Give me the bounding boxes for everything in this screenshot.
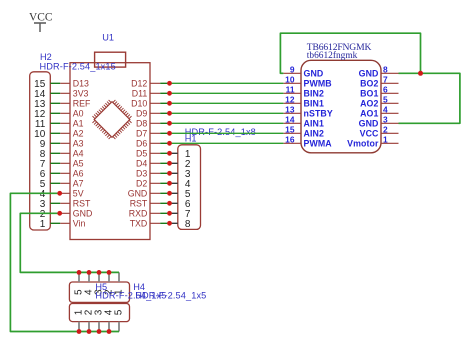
TB6612 left pin numbers (285, 64, 295, 144)
U1 left pin names (73, 79, 93, 229)
svg-text:3V3: 3V3 (73, 89, 89, 99)
header H2 body HDR-F-2.54_1x15 (30, 72, 51, 230)
svg-text:GND: GND (73, 209, 93, 219)
svg-text:GND: GND (128, 189, 148, 199)
svg-text:Vin: Vin (73, 219, 86, 229)
svg-text:9: 9 (290, 64, 295, 74)
U1 right pin leads (150, 83, 160, 223)
svg-text:VCC: VCC (29, 11, 52, 23)
svg-text:1: 1 (40, 219, 46, 230)
svg-text:VCC: VCC (360, 129, 379, 139)
wire GND net H2 pin2 to H5 top row (20, 213, 119, 272)
H1 reference label (185, 134, 197, 144)
svg-text:GND: GND (304, 69, 324, 79)
motor driver U TB6612FNGMK body (301, 60, 381, 153)
svg-text:D9: D9 (136, 109, 147, 119)
svg-text:5: 5 (383, 94, 388, 104)
H4 reference label (133, 282, 145, 292)
svg-text:PWMA: PWMA (304, 139, 333, 149)
svg-text:1: 1 (383, 134, 388, 144)
svg-text:5: 5 (114, 309, 125, 315)
H4 value label (135, 291, 206, 301)
svg-text:D10: D10 (131, 99, 147, 109)
TB6612 left pin leads 9..16 (283, 73, 301, 143)
svg-text:TXD: TXD (130, 219, 148, 229)
svg-text:16: 16 (285, 134, 295, 144)
svg-text:12: 12 (285, 94, 295, 104)
svg-text:D6: D6 (136, 139, 147, 149)
svg-text:8: 8 (383, 64, 388, 74)
U1 left pin leads (60, 83, 70, 223)
svg-text:A4: A4 (73, 149, 84, 159)
svg-text:14: 14 (285, 114, 295, 124)
U1 QFP chip glyph (89, 97, 135, 143)
svg-text:nSTBY: nSTBY (304, 109, 333, 119)
wire VCC loop TB pin9 to pin8 (280, 33, 420, 73)
svg-text:Vmotor: Vmotor (347, 139, 379, 149)
svg-text:A1: A1 (73, 119, 84, 129)
H1 pin numbers 1..8 (185, 149, 191, 230)
junction dot H2 pin4 5V (57, 191, 62, 196)
junction dot H2 pin2 GND (57, 211, 62, 216)
svg-text:D7: D7 (136, 129, 147, 139)
IC U1 body (Arduino Nano) (70, 63, 150, 240)
svg-text:BIN2: BIN2 (304, 89, 324, 99)
H2 value label (40, 62, 116, 72)
TB6612 right pin names (347, 69, 379, 149)
svg-text:A5: A5 (73, 159, 84, 169)
svg-text:10: 10 (285, 74, 295, 84)
svg-text:REF: REF (73, 99, 91, 109)
svg-text:D2: D2 (136, 179, 147, 189)
svg-text:RST: RST (73, 199, 91, 209)
header H4 body HDR-F-2.54_1x5 (bottom horizontal) (69, 304, 129, 322)
svg-text:H2: H2 (40, 52, 52, 62)
svg-text:D4: D4 (136, 159, 147, 169)
svg-text:7: 7 (383, 74, 388, 84)
wires U1 right pins to junctions (15) (160, 83, 169, 223)
svg-text:U1: U1 (102, 33, 114, 43)
svg-text:D5: D5 (136, 149, 147, 159)
TB6612 part name label (307, 42, 372, 53)
TB6612 left pin names (304, 69, 333, 149)
svg-text:2: 2 (383, 124, 388, 134)
H4 pin numbers 1..5 rotated (74, 309, 125, 315)
svg-text:GND: GND (359, 119, 379, 129)
wire TB pin8 GND to pin3 GND (399, 73, 460, 123)
header H5 body HDR-F-2.54_1x5 (top horizontal) (69, 282, 129, 302)
svg-text:AIN2: AIN2 (304, 129, 324, 139)
svg-text:D12: D12 (131, 79, 147, 89)
U1 reference label (102, 33, 114, 43)
svg-text:D3: D3 (136, 169, 147, 179)
junction dots H4 bottom (77, 329, 112, 334)
svg-text:D11: D11 (132, 89, 148, 99)
svg-text:13: 13 (285, 104, 295, 114)
svg-text:PWMB: PWMB (304, 79, 332, 89)
junction dots H5 top (77, 270, 112, 275)
U1 right pin names (128, 79, 148, 229)
svg-text:RST: RST (130, 199, 148, 209)
svg-text:3: 3 (383, 114, 388, 124)
svg-text:HDR-F-2.54_1x15: HDR-F-2.54_1x15 (40, 62, 116, 72)
junction dots U1 right pins (167, 81, 172, 226)
wires U1 D12-D6 to TB6612 pins 10-16 (170, 83, 284, 143)
svg-text:BO2: BO2 (360, 79, 378, 89)
svg-text:15: 15 (285, 124, 295, 134)
H5 value label (95, 291, 166, 301)
svg-text:8: 8 (185, 219, 191, 230)
svg-text:AO1: AO1 (360, 109, 378, 119)
svg-text:A7: A7 (73, 179, 84, 189)
svg-text:GND: GND (359, 69, 379, 79)
svg-text:D13: D13 (73, 79, 89, 89)
header H1 body HDR-F-2.54_1x8 (178, 145, 201, 230)
H4 pin stubs downward (79, 322, 119, 332)
wires H2 to U1 (15 stubs) (50, 83, 60, 223)
junction dot TB pin8 (418, 71, 423, 76)
H5 pin numbers 5..1 rotated (74, 289, 125, 295)
svg-text:BO1: BO1 (360, 89, 378, 99)
H2 pin numbers 15..1 (34, 79, 46, 230)
wire 5V net H2 pin4 to H4 bottom row (10, 193, 119, 331)
H5 pin stubs upward (79, 272, 119, 282)
svg-text:A2: A2 (73, 129, 84, 139)
svg-text:tb6612fngmk: tb6612fngmk (307, 50, 358, 61)
TB6612 right pin leads 8..1 (381, 73, 399, 143)
H2 reference label (40, 52, 52, 62)
svg-text:BIN1: BIN1 (304, 99, 324, 109)
svg-text:RXD: RXD (129, 209, 148, 219)
VCC supply symbol (29, 11, 52, 32)
svg-text:A0: A0 (73, 109, 84, 119)
U1 top notch (95, 52, 126, 67)
svg-text:6: 6 (383, 84, 388, 94)
svg-text:4: 4 (383, 104, 388, 114)
TB6612 value label (307, 50, 358, 61)
TB6612 right pin numbers (383, 64, 388, 144)
svg-text:11: 11 (286, 84, 295, 94)
H5 reference label (95, 282, 107, 292)
svg-text:AIN1: AIN1 (304, 119, 324, 129)
svg-text:5V: 5V (73, 189, 84, 199)
svg-text:A3: A3 (73, 139, 84, 149)
H1 value label (185, 127, 256, 137)
svg-text:A6: A6 (73, 169, 84, 179)
svg-text:AO2: AO2 (360, 99, 378, 109)
svg-text:H1: H1 (185, 134, 197, 144)
svg-text:D8: D8 (136, 119, 147, 129)
H1 pin stubs (170, 153, 178, 223)
svg-text:HDR-F-2.54_1x5: HDR-F-2.54_1x5 (135, 291, 206, 301)
